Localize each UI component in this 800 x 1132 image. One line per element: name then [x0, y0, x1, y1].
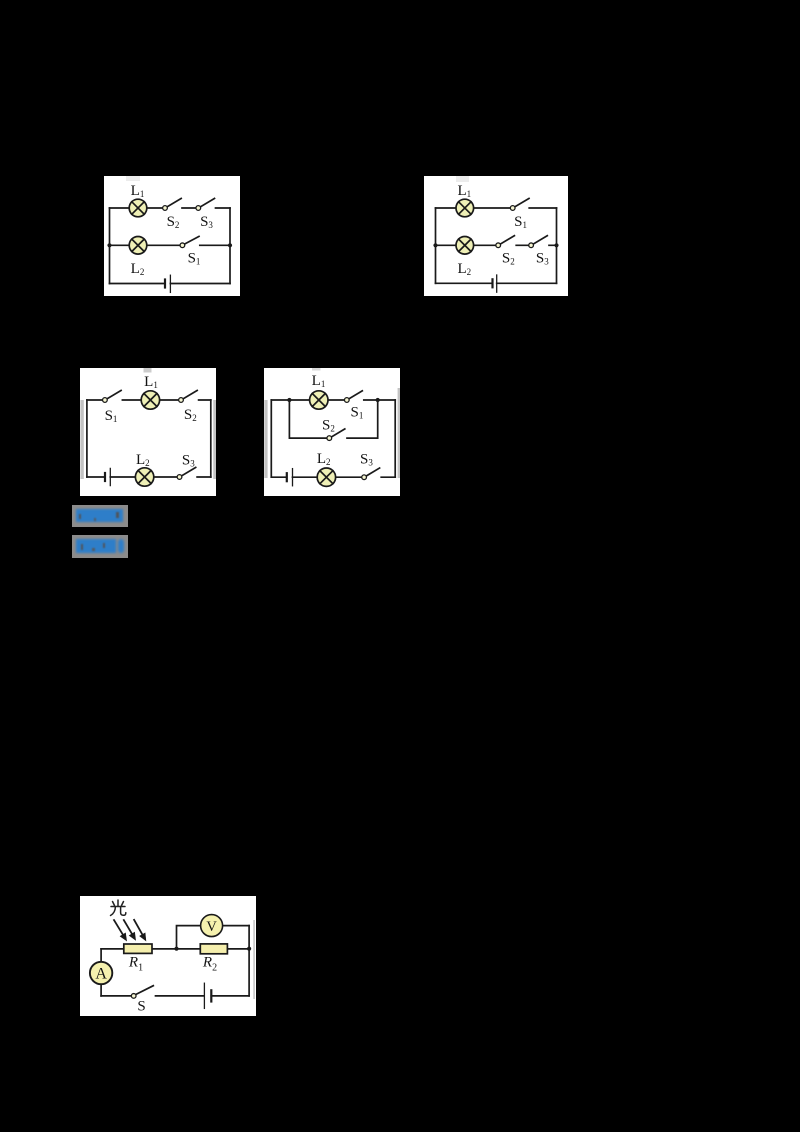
svg-text:S1: S1 — [350, 405, 363, 421]
node left of R2 — [174, 947, 178, 951]
node top left — [287, 398, 291, 402]
svg-text:L2: L2 — [136, 452, 150, 468]
wire middle branch — [110, 244, 231, 246]
svg-text:A: A — [95, 965, 107, 982]
hanzi "guang" (light) drawn as strokes — [111, 900, 126, 916]
node right of R2 — [247, 947, 251, 951]
svg-text:L2: L2 — [131, 261, 145, 277]
wire bottom — [436, 282, 557, 284]
battery — [493, 275, 497, 292]
wire left vertical — [435, 208, 437, 283]
battery — [165, 275, 170, 292]
wire bottom branch — [87, 476, 211, 478]
wire right vertical — [229, 208, 231, 284]
switch S2 — [163, 198, 182, 210]
battery — [204, 983, 211, 1008]
svg-text:S: S — [137, 999, 145, 1015]
switch S2 — [327, 429, 345, 441]
wire middle branch — [436, 244, 557, 246]
light ray arrows — [114, 920, 146, 941]
scan artifact strip left — [264, 400, 267, 478]
svg-text:V: V — [206, 919, 217, 935]
wire left vertical — [86, 400, 88, 477]
lamp L1 — [310, 391, 328, 409]
switch S3 — [196, 198, 215, 210]
wire right vertical — [210, 400, 212, 477]
svg-text:L1: L1 — [457, 183, 471, 199]
node right — [554, 243, 558, 247]
switch S1 — [180, 236, 199, 247]
wire bottom branch — [271, 476, 395, 478]
lamp L2 — [129, 237, 147, 255]
lamp L1 — [129, 199, 147, 217]
svg-text:S2: S2 — [322, 418, 335, 434]
scan artifact strip right — [213, 400, 216, 479]
arrow ray 3 — [134, 920, 146, 941]
wire right vertical — [248, 926, 250, 996]
scan artifact mark top — [144, 368, 152, 373]
switch S1 — [510, 198, 529, 210]
wire right vertical — [556, 208, 558, 283]
switch S1 — [344, 391, 362, 403]
wire top branch — [87, 399, 211, 401]
scan artifact strip right — [253, 920, 255, 999]
wire top — [101, 948, 249, 950]
svg-text:L1: L1 — [144, 374, 158, 390]
voltmeter V — [201, 915, 223, 937]
svg-text:L2: L2 — [457, 261, 471, 277]
switch S — [131, 986, 153, 999]
lamp L2 — [456, 237, 474, 255]
svg-text:S1: S1 — [105, 408, 118, 424]
node top right — [376, 398, 380, 402]
ammeter A — [90, 962, 112, 984]
node left — [107, 243, 111, 247]
node right — [228, 243, 232, 247]
lamp L1 — [141, 391, 159, 409]
scan artifact strip left — [80, 400, 83, 479]
arrow ray 2 — [124, 920, 136, 940]
wire top branch — [436, 207, 557, 209]
svg-text:L1: L1 — [312, 373, 326, 389]
wire left vertical — [100, 949, 102, 996]
switch S3 — [177, 467, 196, 479]
svg-text:S3: S3 — [182, 453, 195, 469]
battery — [105, 468, 110, 485]
wire left vertical — [109, 208, 111, 284]
wire S2 bypass loop — [289, 400, 377, 438]
arrow ray 1 — [114, 920, 127, 941]
resistor R1 (photoresistor) — [124, 944, 152, 953]
svg-text:S2: S2 — [184, 407, 197, 423]
svg-text:L1: L1 — [131, 183, 145, 199]
svg-text:S3: S3 — [200, 214, 213, 230]
svg-text:S2: S2 — [167, 214, 180, 230]
switch S1 — [103, 390, 122, 402]
svg-text:R2: R2 — [202, 955, 217, 974]
battery — [287, 469, 293, 486]
svg-text:S2: S2 — [502, 251, 515, 267]
lamp L1 — [456, 199, 474, 217]
svg-text:S3: S3 — [536, 251, 549, 267]
switch S2 — [179, 390, 198, 402]
resistor R2 — [200, 944, 227, 954]
wire top branch — [110, 207, 231, 209]
node left — [433, 243, 437, 247]
switch S2 — [496, 236, 515, 248]
wire bottom — [110, 283, 231, 285]
lamp L2 — [317, 468, 335, 486]
svg-text:R1: R1 — [128, 955, 143, 974]
wire top branch — [271, 399, 395, 401]
svg-text:S1: S1 — [514, 214, 527, 230]
wire right vertical — [394, 400, 396, 477]
wire left vertical — [270, 400, 272, 477]
svg-text:S3: S3 — [360, 452, 373, 468]
lamp L2 — [135, 468, 153, 486]
scan artifact strip right — [398, 388, 400, 478]
switch S3 — [362, 468, 380, 480]
svg-text:S1: S1 — [188, 251, 201, 267]
wire bottom — [101, 995, 249, 997]
svg-text:L2: L2 — [317, 451, 331, 467]
wire voltmeter loop — [177, 926, 250, 949]
switch S3 — [529, 236, 548, 248]
